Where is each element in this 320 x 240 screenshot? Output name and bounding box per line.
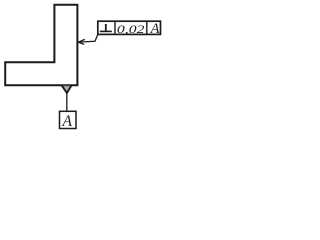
frame divider 1 [114,21,116,34]
feature control frame outer box [98,21,161,34]
datum leader wire [66,93,68,112]
frame divider 2 [146,21,148,34]
datum triangle on bottom surface [62,85,72,93]
perpendicularity symbol [100,24,112,31]
leader wire from frame to column edge [79,34,98,42]
svg-text:A: A [61,113,72,130]
datum box [60,111,77,128]
svg-text:0,02: 0,02 [117,22,145,36]
part outline (L-shaped workpiece) [5,5,77,85]
arrowhead at column right edge [78,39,85,44]
svg-text:A: A [150,21,160,37]
